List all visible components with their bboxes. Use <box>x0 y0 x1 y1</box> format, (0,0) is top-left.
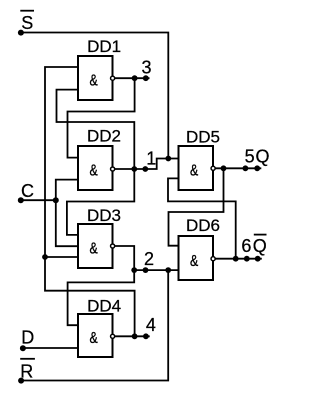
svg-text:&: & <box>190 162 198 179</box>
svg-text:&: & <box>90 240 98 257</box>
node C junction <box>53 197 59 203</box>
svg-text:DD1: DD1 <box>87 37 121 56</box>
svg-text:DD4: DD4 <box>87 297 121 316</box>
Q-bar overbar <box>255 234 266 236</box>
svg-text:R: R <box>20 361 33 381</box>
wire C junction down to DD3 input 2 <box>56 200 78 246</box>
wire net 4 to DD3 input 3 <box>45 256 78 258</box>
R-bar overbar <box>21 358 34 360</box>
node net 2 pin dots <box>131 249 171 273</box>
svg-text:2: 2 <box>144 249 154 269</box>
svg-text:S: S <box>21 13 33 33</box>
wire C junction up to DD2 input 2 <box>56 180 78 201</box>
S-bar overbar <box>21 10 33 12</box>
node net 4 junction at DD3 input 3 <box>42 254 48 260</box>
node R-bar input terminal <box>18 361 33 383</box>
svg-text:&: & <box>90 72 98 89</box>
wire net 4 feedback up left bus to DD1 input 1 <box>45 67 135 336</box>
gate DD4 <box>78 297 121 358</box>
wire S-bar to DD5 input junction <box>21 33 168 158</box>
svg-text:&: & <box>90 162 98 179</box>
wire Q feedback to DD6 input 1 <box>169 168 224 245</box>
node Q output junction and pin dots <box>221 147 271 172</box>
wire DD5 output Q <box>216 167 261 169</box>
node junction S/net1 at DD5 input <box>165 156 171 162</box>
svg-text:C: C <box>21 181 34 201</box>
svg-text:DD5: DD5 <box>186 127 220 146</box>
wire DD4 output net 4 <box>115 335 149 337</box>
wire DD1 output net 3 <box>115 77 149 79</box>
wire Q-bar feedback to DD5 input 2 <box>168 178 236 258</box>
svg-text:&: & <box>90 330 98 347</box>
svg-text:D: D <box>21 327 34 347</box>
node net 3 pin dots <box>132 57 152 81</box>
wire DD6 output Q-bar <box>216 258 261 260</box>
wire net 1 feedback up to DD1 input 2 <box>57 90 135 169</box>
gate DD3 <box>78 206 121 268</box>
svg-text:5Q: 5Q <box>245 147 271 167</box>
wire DD2 output net 1 with jog to DD5 input 1 <box>115 159 179 170</box>
svg-text:6Q: 6Q <box>241 236 268 256</box>
svg-text:&: & <box>190 253 198 270</box>
wire DD3 output net 2 to bus and DD4 input 1 <box>68 246 135 325</box>
svg-text:1: 1 <box>146 148 156 168</box>
wire D to DD4 input 2 <box>23 347 78 349</box>
gate DD5 <box>179 127 221 190</box>
node Q-bar output junction and pin dots <box>233 236 268 262</box>
wire net 2 bus to DD6 input 2 <box>134 269 178 271</box>
node C input terminal <box>18 181 34 203</box>
wire net 1 down to DD3 input 1 <box>67 169 134 235</box>
node D input terminal <box>20 327 34 351</box>
node net 1 pin dots <box>131 148 156 172</box>
svg-text:3: 3 <box>142 57 152 77</box>
node net 4 pin dots <box>132 315 156 339</box>
wire net 3 to DD2 input 1 <box>68 78 135 157</box>
wire R-bar to net2 bus junction <box>21 272 168 381</box>
svg-text:DD2: DD2 <box>87 127 121 146</box>
svg-text:DD3: DD3 <box>87 206 121 225</box>
gate DD6 <box>179 216 221 280</box>
gate DD2 <box>78 127 121 191</box>
wire C to junction <box>21 199 56 201</box>
svg-text:DD6: DD6 <box>186 216 220 235</box>
gate DD1 <box>78 37 121 100</box>
node S-bar input terminal <box>18 13 33 35</box>
svg-text:4: 4 <box>146 315 156 335</box>
